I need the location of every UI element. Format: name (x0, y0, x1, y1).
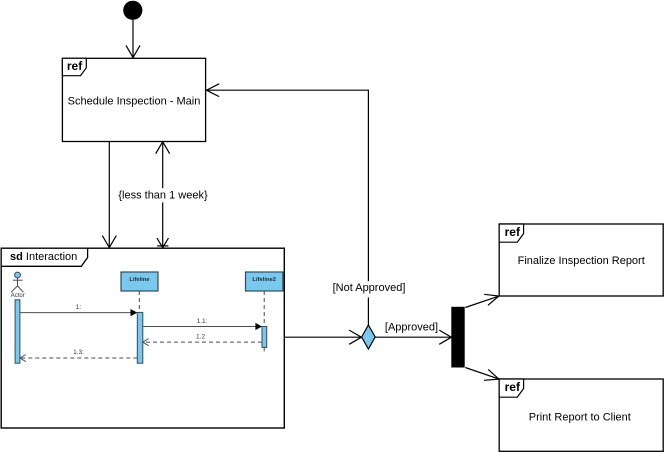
svg-text:Lifeline: Lifeline (129, 277, 150, 283)
svg-text:1.1:: 1.1: (197, 318, 208, 325)
svg-text:1:: 1: (76, 304, 82, 311)
svg-text:Print Report to Client: Print Report to Client (529, 411, 631, 423)
svg-text:[Not Approved]: [Not Approved] (333, 282, 406, 294)
svg-text:{less than 1 week}: {less than 1 week} (118, 189, 208, 201)
svg-text:sd Interaction: sd Interaction (10, 251, 77, 263)
svg-text:ref: ref (67, 59, 83, 73)
svg-text:Actor: Actor (11, 293, 25, 299)
svg-text:Finalize Inspection Report: Finalize Inspection Report (518, 255, 645, 267)
svg-text:ref: ref (505, 225, 521, 239)
svg-text:1.3:: 1.3: (73, 349, 84, 356)
svg-text:[Approved]: [Approved] (385, 321, 438, 333)
svg-text:Schedule Inspection - Main: Schedule Inspection - Main (68, 96, 201, 108)
svg-text:Lifeline2: Lifeline2 (252, 277, 276, 283)
svg-text:ref: ref (505, 380, 521, 394)
svg-text:1.2: 1.2 (196, 334, 205, 341)
